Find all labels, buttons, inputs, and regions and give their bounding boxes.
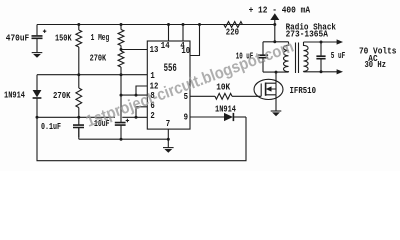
- ground below C1: [32, 53, 43, 58]
- op-amp timer U1 556 body: [147, 41, 190, 129]
- wire pin 5 to 10K: [190, 95, 215, 97]
- svg-text:1: 1: [150, 70, 155, 81]
- pin 8 number: [150, 90, 155, 101]
- label + 12 - 400 mA: [249, 4, 311, 15]
- pin 10 number: [181, 45, 190, 56]
- svg-text:10: 10: [181, 45, 190, 56]
- svg-text:1 Meg: 1 Meg: [91, 32, 110, 43]
- junction drain / primary bottom: [275, 71, 278, 74]
- wire D2 to bottom rail: [233, 116, 246, 118]
- wire node pin1 horizontal: [37, 74, 147, 76]
- resistor 270K lower: [53, 75, 82, 125]
- junction top rail / 1 Meg: [120, 23, 123, 26]
- capacitor C2 0.1uF: [41, 121, 84, 137]
- svg-text:0.1uF: 0.1uF: [41, 121, 61, 132]
- junction branch / pin 8 wire: [120, 94, 123, 97]
- watermark blog url: [84, 38, 297, 131]
- svg-text:273-1365A: 273-1365A: [286, 29, 329, 40]
- label 273-1365A: [286, 29, 329, 40]
- wire +12V feed to primary: [274, 25, 276, 42]
- svg-text:14: 14: [161, 40, 170, 51]
- wire bottom return rail: [37, 117, 246, 161]
- svg-text:30 Hz: 30 Hz: [365, 59, 387, 70]
- diode D1 1N914: [4, 75, 41, 118]
- junction 270K lower / pin2 wire: [77, 116, 80, 119]
- wire pin 14 lead: [168, 25, 170, 42]
- svg-text:+ 12 - 400 mA: + 12 - 400 mA: [249, 4, 311, 15]
- transformer T1 secondary winding: [304, 42, 309, 72]
- junction D1 / pin2 wire / left drop: [36, 116, 39, 119]
- junction pin6 tie / pin 2 wire: [135, 116, 138, 119]
- wire pin 2 node (with hop gap at C3 branch): [37, 116, 147, 118]
- junction top rail / pin 4: [182, 23, 185, 26]
- svg-text:2: 2: [150, 110, 155, 121]
- svg-text:1N914: 1N914: [215, 104, 236, 115]
- junction ground bus / pin 7 lead: [167, 138, 170, 141]
- junction node / 270K bottom: [120, 73, 123, 76]
- pin 13 number: [150, 44, 159, 55]
- wire pin 8: [121, 94, 147, 96]
- capacitor C5 5uF: [316, 42, 345, 72]
- junction 1Meg / 270K / pin 13: [120, 48, 123, 51]
- wire pin 12 tie to pin 8: [136, 86, 147, 95]
- label output 30 Hz: [365, 59, 387, 70]
- resistor 220: [224, 22, 243, 38]
- pin 5 number: [184, 91, 189, 102]
- label Radio Shack: [286, 22, 337, 33]
- junction top rail / pin 10 riser: [198, 23, 201, 26]
- transistor Q1 IFR510 MOSFET: [254, 72, 316, 111]
- junction feed / primary top: [273, 40, 276, 43]
- svg-text:9: 9: [184, 112, 189, 123]
- svg-text:5 uF: 5 uF: [331, 50, 346, 61]
- resistor 150K: [55, 25, 82, 75]
- svg-text:1N914: 1N914: [4, 89, 25, 100]
- wire 10K to gate: [232, 95, 261, 97]
- resistor 1 Meg: [91, 25, 124, 50]
- svg-text:270K: 270K: [90, 52, 107, 63]
- wire pin 6 tie to pin 2: [136, 107, 147, 118]
- diode D2 1N914: [215, 104, 236, 122]
- junction C3 / ground wire: [120, 138, 123, 141]
- wire primary bottom: [263, 71, 289, 73]
- pin 14 number: [161, 40, 170, 51]
- label output AC: [368, 53, 378, 64]
- wire top +12V supply rail: [37, 24, 275, 26]
- capacitor C3 10uF: [94, 118, 129, 139]
- wire secondary top output: [304, 39, 344, 44]
- capacitor C4 10uF (across primary): [236, 42, 268, 72]
- svg-text:270K: 270K: [53, 90, 71, 101]
- svg-text:220: 220: [226, 27, 239, 38]
- pin 1 number: [150, 70, 155, 81]
- wire primary top: [263, 41, 289, 43]
- ground below Q1 source: [271, 111, 282, 116]
- svg-text:13: 13: [150, 44, 159, 55]
- wire pin 9 to D2: [190, 116, 224, 118]
- junction secondary top / C5: [320, 41, 323, 44]
- junction top rail / 150K: [77, 23, 80, 26]
- resistor 10K: [215, 81, 232, 99]
- ground below pin 7: [163, 148, 174, 153]
- svg-text:150K: 150K: [55, 33, 72, 44]
- pin 6 number: [150, 100, 155, 111]
- junction top rail / +12V feed: [273, 23, 276, 26]
- transformer T1 primary winding: [283, 42, 288, 72]
- wire pin 7 lead: [167, 129, 169, 147]
- junction top rail / pin 14: [167, 23, 170, 26]
- wire secondary bottom output: [304, 69, 344, 74]
- svg-text:IFR510: IFR510: [290, 85, 317, 96]
- wire pin 4 lead: [182, 25, 184, 42]
- pin 9 number: [184, 112, 189, 123]
- junction secondary bottom / C5: [320, 70, 323, 73]
- wire pin 13: [121, 49, 147, 51]
- svg-text:470uF: 470uF: [6, 33, 30, 44]
- pin 12 number: [150, 80, 159, 91]
- svg-text:556: 556: [164, 63, 177, 75]
- pin 2 number: [150, 110, 155, 121]
- transformer T1 core: [296, 43, 299, 74]
- supply arrow +12V: [270, 13, 279, 24]
- wire 1Meg node down to C3: [120, 75, 122, 122]
- label output 70 Volts: [359, 45, 397, 56]
- junction pin12 tie / pin 8 wire: [135, 94, 138, 97]
- pin 7 number: [166, 118, 171, 129]
- svg-text:7: 7: [166, 118, 171, 129]
- capacitor C1 470uF: [6, 25, 47, 53]
- resistor 270K upper: [90, 51, 124, 75]
- wire pin 10 lead: [190, 25, 200, 56]
- svg-text:70 Volts: 70 Volts: [359, 45, 397, 56]
- junction node / 150K bottom: [77, 73, 80, 76]
- wire ground bus under capacitors: [79, 128, 169, 140]
- pin 4 number: [180, 40, 185, 51]
